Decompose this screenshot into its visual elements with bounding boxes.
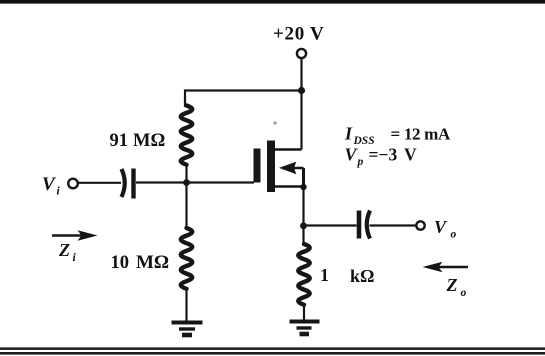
arrow Zo — [436, 266, 468, 269]
wire: 10M bottom to ground — [185, 289, 187, 322]
arrow Zi — [52, 234, 84, 237]
wire: 1k bottom to ground — [303, 304, 305, 321]
wire: source junction down to output junction — [302, 187, 304, 226]
wire: capacitor C1 to gate node — [136, 181, 254, 183]
scan speck — [273, 121, 276, 124]
node: top junction dot — [298, 87, 305, 94]
svg-text:V: V — [434, 217, 448, 237]
wire: input terminal to capacitor C1 — [78, 182, 121, 184]
supply terminal circle — [297, 49, 306, 58]
svg-text:p: p — [357, 156, 364, 168]
svg-text:=−3: =−3 — [369, 145, 398, 165]
gate bar — [254, 149, 261, 183]
resistor R2 10 MOhm squiggle — [181, 228, 193, 289]
input terminal circle — [68, 179, 78, 189]
wire: output junction to capacitor C2 — [304, 224, 357, 226]
wire: rail from top junction down to drain — [300, 91, 302, 150]
substrate arrow — [282, 167, 304, 169]
capacitor C2 curved plate — [367, 211, 370, 239]
node: source junction dot — [300, 184, 306, 190]
bottom double rule — [0, 347, 545, 350]
svg-text:1: 1 — [320, 265, 329, 285]
drain lead — [275, 148, 302, 150]
resistor R3 1 kOhm squiggle — [298, 244, 310, 305]
top border rule — [0, 0, 545, 4]
svg-text:10: 10 — [111, 253, 130, 273]
svg-text:o: o — [451, 229, 457, 241]
svg-text:MΩ: MΩ — [136, 252, 169, 273]
svg-text:V: V — [42, 174, 56, 195]
wire: 91M bottom to gate node — [185, 164, 187, 183]
wire: output junction down to 1k — [302, 226, 304, 245]
svg-text:V: V — [404, 145, 417, 165]
wire: gate node down to 10M — [185, 183, 187, 230]
substrate-to-source connector — [302, 168, 305, 187]
svg-text:o: o — [461, 287, 467, 299]
node: output junction dot — [300, 222, 307, 229]
output terminal circle — [416, 221, 424, 229]
capacitor C1 straight plate — [131, 169, 135, 199]
svg-text:91: 91 — [110, 131, 129, 151]
ground left — [172, 323, 203, 336]
svg-text:V: V — [345, 145, 359, 165]
capacitor C1 curved plate — [122, 169, 125, 197]
wire: 91M branch top corner — [184, 90, 186, 108]
svg-text:Z: Z — [58, 240, 70, 260]
node: gate junction dot — [183, 179, 190, 186]
wire: top horizontal to 91M branch — [184, 89, 302, 91]
svg-text:Z: Z — [446, 275, 458, 295]
source lead — [275, 185, 304, 187]
svg-text:MΩ: MΩ — [133, 131, 165, 151]
ground right — [290, 322, 320, 335]
capacitor C2 straight plate — [357, 211, 362, 239]
resistor R1 91 MOhm squiggle — [181, 106, 193, 165]
wire: capacitor C2 to output terminal — [370, 224, 417, 226]
channel bar — [267, 141, 275, 193]
svg-text:I: I — [344, 124, 353, 144]
svg-text:kΩ: kΩ — [350, 266, 374, 286]
svg-text:= 12 mA: = 12 mA — [391, 125, 452, 144]
svg-text:+20 V: +20 V — [273, 24, 324, 45]
wire: supply circle down to top junction — [300, 58, 302, 91]
